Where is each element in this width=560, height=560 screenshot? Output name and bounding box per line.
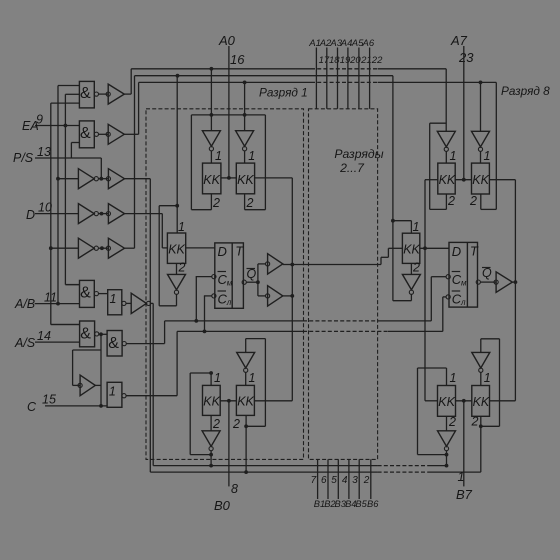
buffer amplifier row4 stage2 <box>106 204 124 224</box>
svg-text:1: 1 <box>450 149 457 163</box>
svg-text:T: T <box>470 244 479 259</box>
wire A0 node <box>221 176 236 180</box>
KK switch KK3R bit8 load <box>402 220 420 275</box>
KK switch KK3 bit1 load <box>167 220 185 275</box>
wire KK1 bracket <box>191 115 211 210</box>
wire KK3 inverter feedback <box>159 206 177 306</box>
wire data column to KK4R <box>425 248 438 400</box>
svg-text:2: 2 <box>212 417 220 431</box>
KK switch KK1 bit1 A-side <box>203 149 222 210</box>
wire KK1 control drop from bus1 <box>210 67 214 131</box>
wire KK1R loop top <box>430 122 447 124</box>
NAND gate D1 (EA·A/B·P/S) <box>79 81 98 108</box>
wire Cm tap bit1 <box>196 277 212 321</box>
svg-text:A0: A0 <box>218 33 236 48</box>
svg-text:18: 18 <box>329 55 340 66</box>
wire NAND1 out to buffer <box>99 93 109 95</box>
output pins B1-B6 pins 7-2 <box>311 459 380 509</box>
buffer amplifier bit1 upper <box>266 254 283 274</box>
svg-text:15: 15 <box>42 393 56 407</box>
svg-text:KK: KK <box>203 395 220 409</box>
wire KK5 right to lower buffer rail <box>254 400 292 402</box>
svg-text:1: 1 <box>484 149 491 163</box>
buffer amplifier row1 <box>106 84 124 104</box>
OR gate D4 row A/B <box>108 290 126 315</box>
svg-text:D: D <box>26 208 35 222</box>
inverter U7 above KK2R <box>472 131 490 163</box>
wire Q output bit8 <box>476 266 496 284</box>
svg-text:1: 1 <box>215 149 222 163</box>
svg-text:7: 7 <box>311 475 317 486</box>
wire KK1/KK2 loop top <box>191 114 265 116</box>
wire bottom rail2 (B-latch strobe 2) <box>150 471 481 473</box>
svg-text:м: м <box>461 279 467 288</box>
wire KK5 loop top <box>246 339 266 353</box>
dashed box bit 1 cell boundary <box>146 109 304 460</box>
svg-text:P/S: P/S <box>13 151 34 165</box>
wire NAND2 input jog from P/S net <box>71 143 101 179</box>
svg-text:&: & <box>80 326 91 343</box>
svg-text:A6: A6 <box>361 38 374 49</box>
wire KK3R out to D input bit8 <box>420 247 449 249</box>
label bit-1 cell <box>259 86 308 100</box>
svg-text:Разряды: Разряды <box>334 147 383 161</box>
wire B0 node <box>220 399 236 403</box>
input pin EA pin 9 <box>22 113 79 134</box>
KK switch KK2 bit1 A-side <box>236 149 255 210</box>
buffer amplifier row3 stage2 <box>106 169 124 189</box>
wire OR D4 out to buffer <box>126 302 131 304</box>
svg-text:&: & <box>108 335 119 352</box>
wire KK2R bracket from bus3 <box>481 82 497 209</box>
label Cl input bit1 FF <box>212 291 232 307</box>
svg-text:22: 22 <box>371 55 383 66</box>
wire KK2 bracket <box>245 115 266 210</box>
svg-text:KK: KK <box>203 173 220 187</box>
svg-text:23: 23 <box>458 50 474 65</box>
input pin A/S pin 14 <box>14 329 80 350</box>
wire Cl net: D7 out to Cl rail <box>126 331 177 395</box>
wire KK4 bracket <box>190 373 211 455</box>
inverter U5 above KK5 <box>237 352 255 385</box>
wire row5 input <box>49 246 79 250</box>
wire C pin junction <box>99 404 103 408</box>
buffer amplifier row3 stage1 <box>78 169 98 189</box>
label Cm input bit1 FF <box>212 272 233 288</box>
buffer amplifier bit8 <box>494 272 512 292</box>
wire A/B NAND out <box>99 293 108 295</box>
svg-text:1: 1 <box>248 149 255 163</box>
svg-text:KK: KK <box>439 173 456 187</box>
svg-text:&: & <box>80 285 91 302</box>
inverter U10 above KK5R <box>472 352 490 385</box>
wire rail A/B net (x=58) <box>56 86 60 306</box>
NAND gate D2 (EA·P/S) <box>79 121 98 148</box>
svg-text:3: 3 <box>352 475 358 486</box>
svg-text:B6: B6 <box>367 499 379 509</box>
wire bit8 buffer out to far rail <box>512 280 517 284</box>
wire KK5 pin2 to bottom rail2 <box>244 415 248 474</box>
wire B7 node <box>456 399 472 403</box>
svg-text:5: 5 <box>331 475 337 486</box>
wire A/B buffer out to rail <box>151 303 153 465</box>
KK switch KK2R bit8 A-side <box>469 149 490 208</box>
svg-text:KK: KK <box>438 395 455 409</box>
svg-text:2: 2 <box>246 196 254 210</box>
wire row4 interstage <box>99 212 109 216</box>
wire KK3R pin2 to inverter <box>410 263 412 274</box>
wire KK3 pin2 to inverter <box>176 263 178 274</box>
wire row5 out to bus2 <box>125 76 135 249</box>
buffer amplifier row5 stage1 <box>78 238 98 258</box>
svg-text:2: 2 <box>212 196 220 210</box>
svg-text:6: 6 <box>321 475 327 486</box>
svg-text:14: 14 <box>37 329 51 343</box>
NAND gate D6 (clock master gate) <box>107 331 126 357</box>
buffer amplifier row4 stage1 <box>78 204 98 224</box>
wire KK3R control from bus2 <box>391 76 411 301</box>
OR gate D7 (clock slave gate) <box>107 382 126 407</box>
wire KK4R loop top <box>418 368 447 386</box>
wire lower buffer out <box>283 295 293 297</box>
wire A/B NAND in1 <box>65 284 79 286</box>
svg-text:D: D <box>218 244 227 259</box>
svg-text:1: 1 <box>214 371 221 385</box>
svg-text:A/S: A/S <box>14 336 36 350</box>
wire NAND2 out to buffer <box>99 133 109 135</box>
wire row3 interstage <box>99 177 109 181</box>
svg-text:Разряд 8: Разряд 8 <box>501 84 550 98</box>
wire recirculation rail bit1 <box>290 178 294 401</box>
buffer amplifier row2 <box>106 124 124 144</box>
wire KK1R bracket <box>430 123 447 209</box>
buffer amplifier row A/B <box>131 293 151 313</box>
NAND gate D5 (A/S) <box>80 321 99 347</box>
label Cm input bit8 FF <box>446 272 467 288</box>
svg-text:B0: B0 <box>214 498 231 513</box>
svg-text:&: & <box>80 85 91 102</box>
svg-text:1: 1 <box>109 385 116 399</box>
input pins A1-A6 pins 17-22 <box>308 38 383 109</box>
wire KK2 output to recirculation rail <box>255 177 293 179</box>
svg-text:1: 1 <box>458 470 465 484</box>
wire KK4R bracket <box>418 368 447 455</box>
svg-text:KK: KK <box>168 243 185 257</box>
svg-text:10: 10 <box>38 201 52 215</box>
wire Q to upper buffer <box>258 264 266 282</box>
wire KK4 loop top <box>190 371 213 385</box>
buffer amplifier bit1 lower <box>266 286 283 306</box>
wire A7 node <box>455 178 471 182</box>
wire Cl riser bit8 <box>443 297 446 332</box>
D flip-flop T1 bit 1 <box>215 243 244 308</box>
svg-text:8: 8 <box>231 482 238 496</box>
input pin A0 pin 16 <box>218 33 245 178</box>
wire row3 out to bottom rail <box>125 179 151 472</box>
wire KK4 pin2 to inverter <box>210 415 212 430</box>
wire A/S NAND in1 from P/S rail <box>51 324 80 326</box>
svg-text:2: 2 <box>363 475 370 486</box>
wire row3 input from rail <box>56 177 78 181</box>
svg-text:&: & <box>80 125 91 142</box>
wire Cm net: D6 out to Cm rail <box>126 321 164 344</box>
wire KK5R pin2 to bottom rail2 <box>480 416 482 472</box>
svg-text:2: 2 <box>447 194 455 208</box>
wire rail EA net (x=65.4) <box>64 94 80 284</box>
label bit-8 cell <box>501 84 550 98</box>
input pin P/S pin 13 <box>13 145 101 165</box>
svg-text:4: 4 <box>342 475 348 486</box>
wire inter-bit chain to bits 2-7 and KK3R <box>283 248 403 264</box>
svg-text:2: 2 <box>448 415 456 429</box>
input pin A/B pin 11 <box>14 291 80 312</box>
wire KK1R control from bus1 <box>445 69 447 132</box>
inverter U8 below KK3R <box>402 274 420 294</box>
wire KK3 control from bus2 <box>175 74 179 233</box>
svg-text:A/B: A/B <box>14 297 35 311</box>
wire Cl clock line <box>177 330 443 334</box>
wire rail P/S net (x=50.8) <box>51 103 80 324</box>
inverting-input buffer row C <box>73 375 96 396</box>
inverter U6 above KK1R <box>437 131 455 163</box>
svg-text:13: 13 <box>37 145 51 159</box>
KK switch KK5R bit8 B-side <box>471 371 491 429</box>
svg-text:9: 9 <box>36 113 43 127</box>
KK switch KK4 bit1 B-side <box>203 371 221 431</box>
svg-text:C: C <box>27 400 37 414</box>
inverter U9 below KK4R <box>438 431 456 451</box>
KK switch KK4R bit8 B-side <box>438 371 457 429</box>
svg-text:2: 2 <box>471 415 479 429</box>
svg-text:KK: KK <box>403 243 420 257</box>
wire KK5 bracket <box>244 339 265 429</box>
svg-text:м: м <box>227 279 233 288</box>
input pin D pin 10 <box>26 201 78 223</box>
label Cl input bit8 FF <box>446 291 466 307</box>
wire branch A/S-out down to inverting buffer input <box>73 334 101 406</box>
svg-text:1: 1 <box>249 371 256 385</box>
wire KK1R left to data column <box>423 180 438 251</box>
wire Q output bit1 <box>242 267 260 284</box>
svg-text:2: 2 <box>178 261 186 275</box>
D flip-flop T8 bit 8 <box>449 242 479 307</box>
wire KK3R inverter feedback <box>393 294 412 300</box>
wire Cl tap bit1 <box>204 296 212 332</box>
KK switch KK5 bit1 B-side <box>232 371 255 431</box>
wire KK2 control drop from bus3 <box>243 81 247 131</box>
svg-text:1: 1 <box>484 371 491 385</box>
wire Q to lower buffer <box>258 282 266 296</box>
svg-text:KK: KK <box>472 173 489 187</box>
inverter U1 above KK1 <box>202 131 220 163</box>
wire inv buffer out <box>95 384 101 386</box>
svg-text:D: D <box>452 244 461 259</box>
KK switch KK1R bit8 A-side <box>438 149 457 208</box>
buffer amplifier row5 stage2 <box>106 238 124 258</box>
wire row5 interstage <box>99 246 109 250</box>
svg-text:л: л <box>226 298 232 307</box>
svg-text:B7: B7 <box>456 487 473 502</box>
output pin B0 pin 8 <box>214 401 238 513</box>
svg-text:T: T <box>235 244 244 259</box>
output pin B7 pin 1 <box>456 401 473 502</box>
wire NAND1 input stubs <box>51 86 80 104</box>
svg-text:KK: KK <box>237 395 254 409</box>
wire bus1 net N1 (EA·A/B strobe) top rail <box>131 68 446 70</box>
svg-text:2...7: 2...7 <box>339 161 365 175</box>
wire Cm riser bit8 <box>431 277 446 321</box>
svg-text:1: 1 <box>110 292 117 306</box>
svg-text:1: 1 <box>178 220 185 234</box>
svg-text:2: 2 <box>232 417 240 431</box>
svg-text:1: 1 <box>413 220 420 234</box>
wire KK4R inverter to bottom rail1 <box>445 451 449 468</box>
input pin C pin 15 <box>27 393 107 415</box>
wire A/S NAND out <box>99 332 107 336</box>
wire row4 out to KK3 data input <box>125 214 168 248</box>
svg-text:KK: KK <box>473 395 490 409</box>
NAND gate D3 (EA·A/B) <box>80 280 99 307</box>
svg-text:16: 16 <box>230 52 245 67</box>
svg-text:KK: KK <box>237 173 254 187</box>
svg-text:л: л <box>460 298 466 307</box>
wire buffer1 out to bus1 <box>124 69 131 94</box>
svg-text:2: 2 <box>469 194 477 208</box>
wire buffer2 out to bus3 <box>124 82 138 134</box>
input pin A7 pin 23 <box>450 33 474 180</box>
wire bottom rail1 (B-latch strobe 1) <box>153 465 446 467</box>
svg-text:1: 1 <box>450 371 457 385</box>
inverter U3 below KK3 <box>168 274 186 294</box>
svg-text:B5: B5 <box>355 499 367 509</box>
inverter U4 below KK4 <box>202 431 220 451</box>
wire bus2 net N2 (load strobe) top rail <box>135 75 393 77</box>
svg-text:2: 2 <box>412 261 420 275</box>
wire KK5R loop top <box>481 339 500 353</box>
wire KK4 inverter out to bottom rail1 <box>209 451 213 468</box>
wire KK5R right to far rail <box>490 400 516 402</box>
svg-text:A4: A4 <box>340 38 353 49</box>
svg-text:A7: A7 <box>450 33 468 48</box>
svg-text:Разряд 1: Разряд 1 <box>259 86 308 100</box>
wire KK2R control drop from bus3 <box>479 81 483 132</box>
wire bus3 net N3 (EA·P/S strobe) top rail <box>139 81 497 83</box>
wire KK2R right to far rail <box>489 180 515 401</box>
wire KK5R bracket <box>479 339 500 428</box>
wire KK3 out to D input <box>186 247 215 249</box>
wire KK4R pin2 to inverter <box>446 416 448 431</box>
inverter U2 above KK2 <box>236 131 254 163</box>
wire Cm clock line <box>165 319 432 323</box>
dashed box bits 2...7 <box>309 109 384 460</box>
